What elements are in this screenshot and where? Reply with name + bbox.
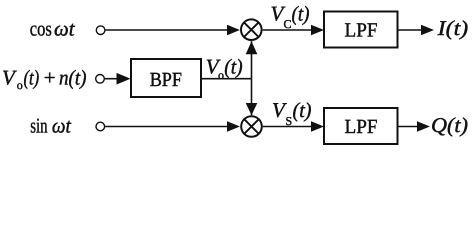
node label VS(t) [272, 98, 312, 128]
wire sin input to multiplier M2 [105, 121, 240, 131]
wire LPF2 to Q(t) output [398, 121, 431, 131]
input label cos wt [30, 17, 76, 41]
LPF block U3 [324, 108, 398, 144]
wire LPF1 to I(t) output [398, 25, 435, 35]
svg-text:ωt: ωt [52, 113, 72, 137]
wire BPF to node A [201, 78, 252, 80]
input label Vo(t)+n(t) [2, 66, 87, 92]
svg-text:(t): (t) [292, 2, 310, 26]
node label VC(t) [271, 2, 310, 32]
svg-text:ωt: ωt [54, 17, 76, 41]
svg-text:(t): (t) [293, 98, 312, 122]
wire M1 to LPF1 [263, 25, 324, 35]
svg-text:n(t): n(t) [59, 66, 87, 90]
terminal T3 [96, 122, 105, 131]
terminal T1 [96, 26, 105, 35]
svg-text:(t): (t) [24, 66, 40, 90]
svg-text:Q(t): Q(t) [431, 113, 468, 137]
wire node A to M1 (up branch) [246, 41, 258, 78]
wire M2 to LPF2 [263, 121, 324, 131]
svg-text:(t): (t) [224, 55, 243, 79]
svg-text:LPF: LPF [345, 116, 378, 138]
LPF block U1 [324, 12, 398, 48]
svg-text:o: o [17, 78, 23, 92]
wire T2 to BPF [105, 73, 131, 85]
svg-text:I(t): I(t) [437, 16, 469, 40]
svg-text:cos: cos [30, 17, 52, 41]
wire cos input to multiplier M1 [105, 25, 240, 35]
wire node A to M2 (down branch) [246, 79, 258, 116]
svg-text:C: C [284, 17, 292, 31]
BPF block U2 [131, 59, 201, 97]
svg-text:BPF: BPF [150, 69, 182, 91]
terminal T2 [96, 75, 105, 84]
svg-text:LPF: LPF [345, 20, 378, 42]
input label sin wt [30, 113, 72, 137]
svg-text:o: o [218, 68, 224, 82]
multiplier M1 [241, 19, 262, 40]
svg-text:+: + [44, 66, 56, 90]
node label Vo(t) [206, 55, 243, 83]
multiplier M2 [241, 116, 262, 137]
svg-text:V: V [2, 66, 17, 90]
svg-text:sin: sin [30, 113, 48, 137]
